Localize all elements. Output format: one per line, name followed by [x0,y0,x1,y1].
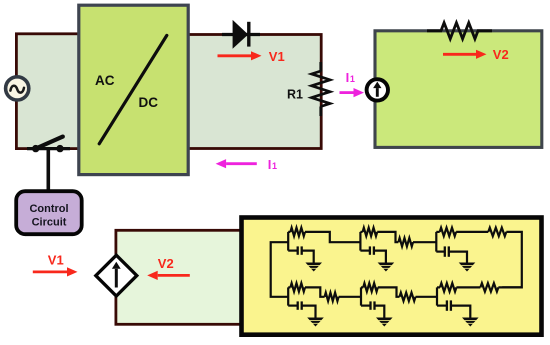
wire: section 6 cap to ground [451,306,471,318]
capacitor (section 2) [360,250,370,252]
wire: section 4 output [305,287,325,296]
load loop box (right) [375,31,542,148]
resistor (coupling, top row) [398,238,413,246]
arrow I1 (current into dependent source) [340,88,365,97]
wire: section 1 output [305,232,360,242]
resistor (section 1) [288,231,290,233]
arrow V2 (feedback voltage) [147,271,190,280]
svg-text:AC: AC [95,73,115,88]
resistor (section 3) [436,231,439,233]
dependent source (diamond with up arrow) [96,255,137,296]
resistor (section 2) [360,231,362,233]
resistor R1 [312,62,330,116]
wire: bottom row to right bus [498,286,521,288]
svg-text:I1: I1 [268,157,277,172]
AC voltage source Vs [6,77,29,100]
capacitor (section 3) [436,251,445,253]
arrow V1 (controlling voltage) [33,267,78,276]
svg-text:V1: V1 [269,49,285,64]
converter diagonal line [99,35,167,143]
resistor (output, bottom row) [480,283,498,291]
svg-text:I1: I1 [346,70,355,85]
wire: section 4 cap to ground [302,306,316,318]
wire: to section 3 [413,241,436,243]
svg-text:Circuit: Circuit [32,217,67,229]
resistor (section 4) [288,286,290,288]
switch S1 [27,137,70,153]
ground (section 5) [376,318,393,327]
wire: section 3 cap to ground [449,252,467,263]
wire: rectifier output loop (maroon rectangle, middle) [184,35,321,149]
arrow V2 (load voltage) [443,50,487,59]
ground (section 2) [378,263,395,272]
dependent current source I1 (circle with up arrow) [367,79,388,100]
capacitor (section 5) [361,305,371,307]
wire: section 1 cap to ground [302,251,314,263]
capacitor (section 1) [288,250,298,252]
svg-text:V2: V2 [493,47,509,62]
ground (section 1) [305,263,322,272]
node: section-1 tee [287,232,289,251]
svg-text:DC: DC [139,95,159,110]
node: section-4 tee [287,287,289,305]
svg-text:V1: V1 [48,253,64,268]
wire: section 3 to output resistor [456,231,488,233]
wire: AC source loop (maroon rectangle, left) [16,34,82,149]
wire: section 6 to output resistor [456,286,480,288]
resistor (coupling 5-6) [400,293,416,301]
wire: to section 6 [416,296,438,298]
resistor (output, top row) [488,228,506,236]
arrow I1 (return current, bottom of middle loop) [216,159,257,168]
controlled source loop box (bottom middle) [116,230,244,324]
wire: right vertical bus [502,232,522,288]
svg-text:R1: R1 [287,88,303,102]
resistor (section 5) [361,286,363,288]
node: section-6 tee [436,287,438,305]
wire: to section 5 [339,296,361,298]
AC-DC converter block U1 [79,5,188,174]
wire: section 5 output [378,287,400,296]
resistor (coupling 4-5) [325,293,339,301]
diode D1 [222,20,260,49]
equivalent RC network box (yellow) [242,218,542,335]
wire: left vertical bus [271,242,289,297]
ground (section 6) [462,318,479,327]
svg-text:Control: Control [29,203,68,215]
capacitor (section 4) [288,305,298,307]
ground (section 4) [307,318,324,327]
resistor (section 6) [437,286,440,288]
wire: section 2 cap to ground [374,251,386,263]
node: section-5 tee [360,287,362,305]
svg-text:V2: V2 [158,256,174,271]
wire: section 2 output [377,232,398,242]
ground (section 3) [459,263,476,272]
wire: section 5 cap to ground [374,306,384,318]
resistor R2 (top of load loop) [427,23,492,39]
capacitor (section 6) [437,305,447,307]
wire: switch to control circuit [46,149,50,191]
node: section-3 tee [435,232,437,252]
control circuit box [16,191,82,234]
arrow V1 (rectifier output voltage) [218,51,262,60]
node: section-2 tee [359,232,361,251]
